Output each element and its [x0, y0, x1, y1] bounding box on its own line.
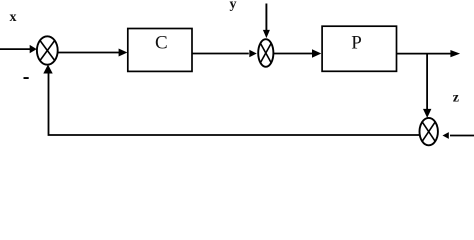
svg-text:z: z	[453, 91, 459, 106]
summing junction S1	[37, 36, 58, 64]
arrowhead down into S3	[423, 109, 431, 118]
svg-text:P: P	[351, 32, 362, 53]
svg-text:C: C	[155, 33, 168, 54]
wire: P output	[397, 53, 452, 55]
arrowhead into summing junction S1	[30, 45, 37, 53]
minus sign on feedback input	[24, 77, 29, 79]
wire: S2 to P	[273, 53, 313, 55]
summing junction S3	[420, 118, 438, 145]
wire: y input vertical	[265, 4, 267, 32]
arrowhead output right	[450, 50, 460, 57]
arrowhead into block P	[312, 49, 321, 57]
arrowhead down into S2	[263, 30, 270, 38]
wire: right edge input to S3	[450, 135, 474, 137]
arrowhead up into S1 bottom	[43, 65, 52, 74]
wire: C to S2	[192, 53, 249, 55]
arrowhead into summing junction S2	[249, 50, 256, 58]
wire: branch down to S3	[426, 54, 428, 110]
svg-text:x: x	[10, 10, 17, 25]
block P	[322, 26, 396, 71]
svg-text:y: y	[230, 0, 237, 12]
wire: x input	[0, 48, 31, 50]
wire: S1 to C	[58, 52, 120, 54]
block C	[128, 29, 192, 72]
arrowhead left into S3	[443, 132, 449, 139]
wire: feedback bottom and up to S1	[49, 73, 420, 135]
summing junction S2	[258, 39, 273, 67]
arrowhead into block C	[119, 48, 128, 56]
